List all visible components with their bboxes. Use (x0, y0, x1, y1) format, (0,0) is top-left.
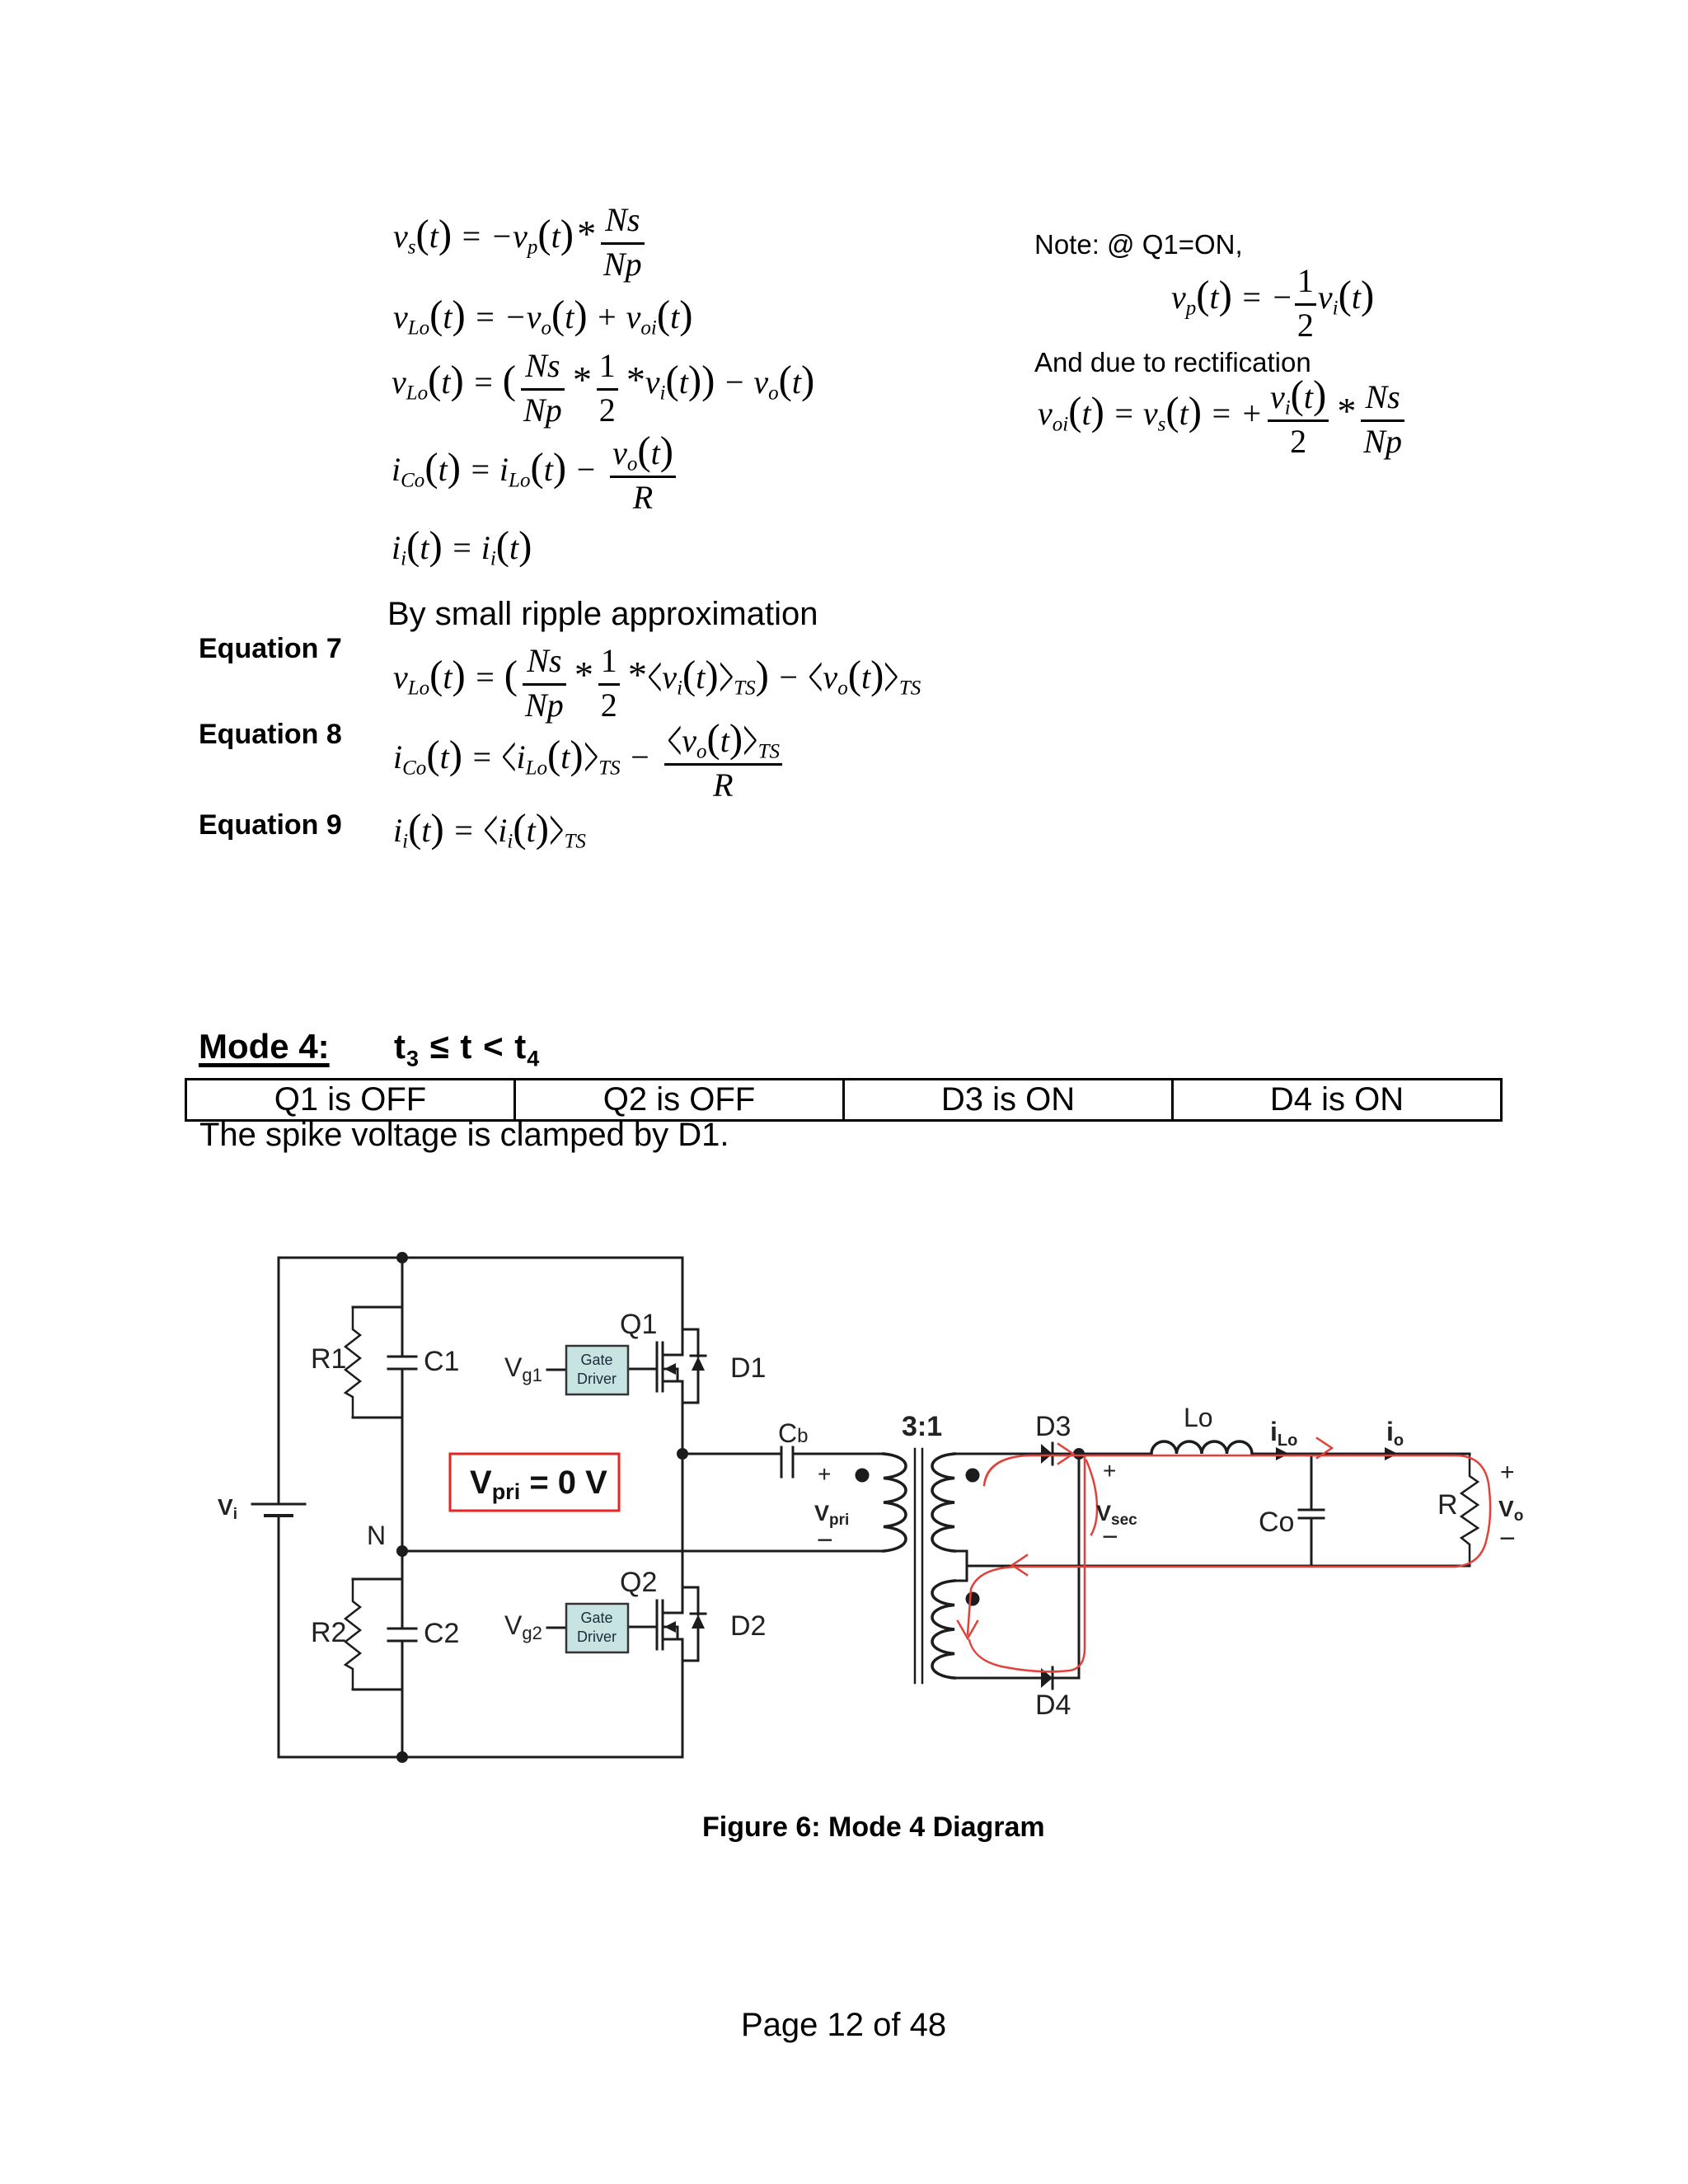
red arrow after D3 (1058, 1444, 1073, 1464)
svg-text:Vg1: Vg1 (504, 1352, 542, 1385)
equation 8 (393, 723, 787, 804)
note equation voi(t) (1038, 379, 1409, 461)
svg-text:Lo: Lo (1184, 1403, 1213, 1432)
gate driver U1 (566, 1346, 628, 1394)
equation iCo(t) (392, 435, 681, 517)
wire left lower (278, 1516, 280, 1757)
wire D4 cathode (1055, 1677, 1079, 1680)
Equation 9 label (199, 809, 342, 841)
Equation 7 label (199, 633, 342, 665)
svg-text:R: R (1437, 1489, 1458, 1521)
node N (396, 1545, 408, 1557)
svg-text:Q1: Q1 (620, 1309, 657, 1340)
svg-text:+: + (818, 1461, 831, 1487)
wire top rail (279, 1257, 682, 1259)
diode D3 (1052, 1443, 1054, 1465)
svg-text:+: + (1103, 1458, 1116, 1483)
diode D1 triangle (692, 1357, 705, 1371)
spike voltage text (199, 1117, 729, 1154)
polarity dot primary (856, 1469, 870, 1483)
equation vs(t) (393, 202, 649, 284)
wire Cb to transformer (793, 1453, 884, 1455)
diode D2 triangle (692, 1615, 705, 1629)
note equation vp(t) (1171, 263, 1374, 344)
svg-text:−: − (817, 1525, 833, 1556)
wire midpoint to Cb (682, 1453, 781, 1455)
mode condition (394, 1027, 540, 1071)
svg-text:C2: C2 (424, 1618, 459, 1649)
wire D3-D4 rail (1078, 1454, 1081, 1678)
svg-text:iLo: iLo (1270, 1417, 1297, 1450)
arrowhead Q2 body (664, 1621, 676, 1633)
resistor R1 (345, 1307, 360, 1418)
Mode 4 heading (199, 1027, 330, 1066)
wire Lo to R (1252, 1453, 1470, 1455)
transistor Q1 (628, 1343, 682, 1391)
diode D4 (1052, 1667, 1054, 1689)
svg-text:R2: R2 (311, 1617, 346, 1648)
svg-text:−: − (1102, 1521, 1118, 1553)
transformer primary winding (884, 1454, 906, 1551)
svg-text:Cb: Cb (778, 1418, 808, 1448)
Vpri annotation box (450, 1454, 619, 1511)
svg-text:3:1: 3:1 (902, 1411, 942, 1442)
red arrow on top rail (1317, 1438, 1332, 1458)
node bottom junction (396, 1751, 408, 1763)
equation 7 (393, 643, 921, 724)
page number (741, 2007, 946, 2044)
diode D2 (682, 1587, 706, 1661)
svg-text:Driver: Driver (577, 1629, 617, 1645)
note text (1034, 229, 1243, 260)
gate driver U2 (566, 1604, 628, 1652)
red curl near Vsec (1086, 1460, 1097, 1535)
transformer core (915, 1449, 922, 1683)
wire left upper (278, 1258, 280, 1504)
diode D4 triangle (1041, 1668, 1053, 1688)
svg-text:R1: R1 (311, 1343, 346, 1375)
table of device states (185, 1078, 1503, 1122)
svg-text:D3: D3 (1035, 1411, 1071, 1442)
transformer center tap step (954, 1551, 967, 1581)
wire branch vertical upper (401, 1258, 404, 1757)
wire center bus upper (682, 1258, 684, 1757)
capacitor C1 (388, 1307, 416, 1418)
svg-text:−: − (1499, 1523, 1516, 1554)
wire secondary bottom out (954, 1677, 1041, 1680)
arrowhead io (1385, 1447, 1398, 1460)
inductor Lo (1151, 1441, 1252, 1454)
svg-text:+: + (1500, 1459, 1515, 1486)
svg-text:Vo: Vo (1498, 1496, 1523, 1525)
svg-text:Gate: Gate (580, 1352, 612, 1368)
wire bottom return rail (967, 1565, 1470, 1568)
svg-text:Vg2: Vg2 (504, 1610, 542, 1643)
equation vLo(t) (393, 298, 693, 336)
red arrow on bottom rail (1012, 1555, 1027, 1575)
rectification text (1034, 347, 1311, 378)
polarity dot secondary top (966, 1469, 980, 1483)
equation ii(t) (392, 528, 532, 567)
capacitor Co (1299, 1454, 1324, 1566)
svg-text:Vi: Vi (218, 1494, 237, 1523)
resistor R2 (345, 1579, 360, 1690)
svg-text:Q2: Q2 (620, 1567, 657, 1598)
resistor R load (1461, 1454, 1478, 1566)
svg-text:Gate: Gate (580, 1610, 612, 1626)
svg-text:io: io (1386, 1417, 1404, 1450)
svg-text:Driver: Driver (577, 1371, 617, 1387)
equation 9 (393, 811, 586, 850)
wire Vg1 lead (547, 1369, 566, 1371)
figure caption (702, 1811, 1045, 1844)
diode D3 triangle (1041, 1444, 1053, 1464)
red current loop A (968, 1455, 1490, 1634)
wire N rail (402, 1550, 884, 1553)
transformer secondary bottom winding (932, 1581, 954, 1678)
wire D3 to Lo (1055, 1453, 1151, 1455)
red current loop B (969, 1457, 1085, 1671)
wire secondary top out (954, 1453, 1041, 1455)
capacitor C2 (388, 1579, 416, 1690)
transistor Q2 (628, 1601, 682, 1649)
diode D1 (682, 1329, 706, 1403)
svg-text:D2: D2 (730, 1610, 766, 1642)
equation vLo(t) expanded (392, 348, 814, 429)
node midpoint (677, 1448, 688, 1460)
svg-text:D1: D1 (730, 1352, 766, 1384)
node top junction (396, 1252, 408, 1263)
battery Vi (252, 1503, 305, 1506)
svg-text:Co: Co (1259, 1507, 1294, 1538)
svg-text:D4: D4 (1035, 1690, 1071, 1721)
svg-text:C1: C1 (424, 1346, 459, 1377)
wire bottom rail (279, 1756, 682, 1759)
wire Vg2 lead (547, 1627, 566, 1629)
arrowhead iLo (1276, 1447, 1289, 1460)
capacitor Cb (781, 1447, 793, 1477)
polarity dot secondary bottom (966, 1592, 980, 1606)
node D3 cathode (1073, 1448, 1085, 1460)
transformer secondary top winding (932, 1454, 954, 1551)
Equation 8 label (199, 719, 342, 751)
red arrow down near secondary (958, 1621, 978, 1638)
small ripple text (387, 596, 818, 633)
arrowhead Q1 body (664, 1363, 676, 1375)
svg-text:N: N (367, 1521, 386, 1550)
svg-text:Vpri = 0 V: Vpri = 0 V (470, 1465, 607, 1504)
